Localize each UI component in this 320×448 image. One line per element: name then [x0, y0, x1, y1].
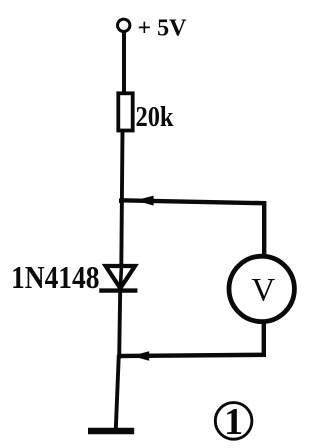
svg-text:1N4148: 1N4148	[11, 259, 100, 295]
arrow on top sense wire pointing left	[135, 196, 153, 206]
wire from bottom node to ground	[116, 355, 119, 429]
node B junction (bottom sense point)	[117, 354, 122, 359]
wire from resistor bottom to diode anode	[121, 131, 122, 266]
svg-text:20k: 20k	[136, 101, 175, 133]
figure number 1 (circled)	[215, 401, 252, 443]
wire top branch to voltmeter	[120, 200, 264, 255]
+5V supply terminal	[118, 19, 130, 31]
svg-text:1: 1	[224, 401, 243, 443]
wire bottom branch from voltmeter	[119, 320, 264, 356]
svg-text:+ 5V: + 5V	[138, 16, 188, 42]
voltmeter V	[229, 256, 294, 321]
wire from +5V terminal to resistor top	[122, 32, 126, 92]
resistor R 20k	[118, 93, 132, 130]
diode 1N4148 cathode bar	[99, 288, 137, 292]
svg-text:V: V	[251, 273, 275, 309]
wire from diode cathode to bottom node	[119, 283, 120, 357]
diode 1N4148 (anode triangle)	[106, 266, 135, 288]
arrow on bottom sense wire pointing left	[131, 351, 149, 361]
node A junction (top sense point)	[119, 199, 124, 204]
wire through diode body	[121, 265, 122, 285]
ground	[88, 428, 134, 435]
